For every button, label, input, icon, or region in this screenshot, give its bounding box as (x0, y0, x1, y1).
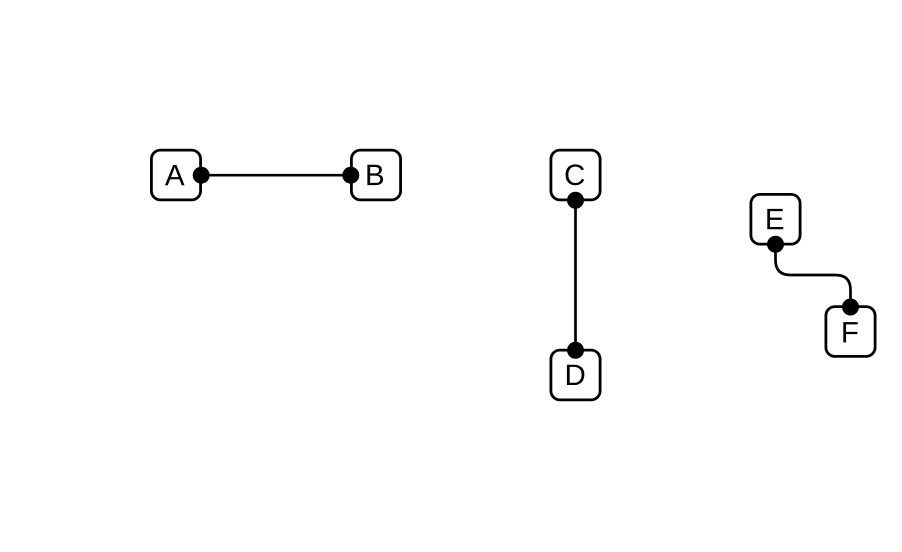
node E (751, 194, 800, 244)
junction at E (767, 236, 784, 253)
junction at D (567, 342, 584, 359)
node C (551, 150, 600, 200)
junction at C (567, 192, 584, 209)
wire E-F (776, 244, 851, 307)
node A (151, 150, 200, 200)
junction at A (193, 167, 210, 184)
node D (551, 350, 600, 400)
node F (826, 307, 875, 357)
node B (351, 150, 400, 200)
junction at F (842, 299, 859, 316)
wire A-B (201, 174, 351, 177)
wire C-D (574, 200, 577, 350)
junction at B (342, 167, 359, 184)
